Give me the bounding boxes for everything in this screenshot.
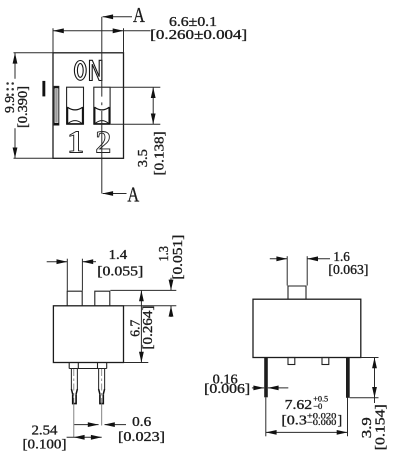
svg-text:[0.260±0.004]: [0.260±0.004]	[150, 27, 247, 42]
top view: left recess strip	[54, 86, 59, 125]
svg-text:1: 1	[67, 126, 84, 161]
side view: body outline	[253, 299, 361, 357]
dimension 3.5 right: extension lines	[111, 86, 161, 88]
dimension 6.7: dimension line	[140, 290, 142, 362]
section arrow top	[103, 16, 132, 18]
dimension 2.54: dimension line	[67, 436, 102, 438]
side view: middle bump 1	[288, 358, 295, 365]
side view: left leg	[264, 358, 268, 398]
top view: switch 2 slot	[94, 87, 110, 124]
side view: actuator tab	[288, 286, 306, 299]
svg-text:2.54: 2.54	[32, 422, 58, 437]
top view: ON legend	[74, 60, 102, 80]
svg-text:[0.063]: [0.063]	[328, 262, 368, 277]
dimension 1.4: extension lines	[66, 259, 68, 291]
section arrow bottom	[103, 193, 127, 195]
dimension 3.9: dimension line	[374, 358, 376, 404]
svg-text:[0.390]: [0.390]	[15, 86, 30, 128]
svg-text:0.6: 0.6	[132, 414, 151, 429]
svg-text:[0.051]: [0.051]	[170, 235, 185, 280]
dimension 1.6: arrows	[270, 258, 287, 260]
svg-text:A: A	[127, 183, 139, 206]
dimension 1.3: extension lines	[110, 289, 176, 291]
svg-text:−0.000: −0.000	[307, 417, 337, 427]
svg-text:[0.006]: [0.006]	[204, 381, 250, 396]
top view: switch 2 actuator	[94, 107, 110, 124]
front view: base block	[69, 363, 107, 369]
svg-text:2: 2	[95, 125, 111, 160]
top view: switch 1 slot	[67, 87, 84, 124]
dimension 7.62: dimension line	[266, 431, 348, 433]
svg-text:A: A	[133, 4, 145, 27]
front view: pin 2	[99, 369, 105, 390]
svg-text:[0.154]: [0.154]	[373, 404, 388, 450]
front view: pin 1 centerline	[73, 369, 75, 405]
svg-text:1.3: 1.3	[156, 246, 171, 262]
dimension 9.9 left: extension lines	[14, 52, 54, 54]
side view: right leg	[346, 358, 350, 398]
front view: pin 2 centerline	[101, 369, 103, 405]
svg-text:[0.264]: [0.264]	[140, 306, 155, 350]
front view: body outline	[53, 306, 123, 363]
top view: switch 1 actuator	[67, 107, 84, 124]
front view: actuator tab 2	[95, 291, 110, 306]
dimension 9.9 left: dimension line	[14, 53, 16, 79]
svg-text:[0.3: [0.3	[281, 412, 307, 427]
top view: switch body outline	[53, 53, 124, 159]
svg-text:[0.023]: [0.023]	[118, 429, 165, 444]
dimension 9.9 left: dots	[6, 82, 14, 96]
front view: pin 1	[71, 369, 77, 390]
side view: middle bump 2	[322, 358, 329, 365]
dimension 6.6 top: dimension line	[53, 30, 151, 32]
dimension 0.6: lines and arrows	[74, 424, 98, 426]
dimension 1.3: arrows	[170, 278, 172, 291]
dimension 6.6 top: extension lines	[52, 28, 54, 53]
dimension 3.5 right: dimension line	[152, 87, 154, 124]
dimension 3.9: extension lines	[361, 357, 379, 359]
svg-text:3.5: 3.5	[135, 149, 150, 167]
svg-text:]: ]	[338, 412, 342, 427]
svg-text:[0.100]: [0.100]	[23, 436, 67, 451]
section line A-A	[101, 17, 103, 194]
front view: actuator tab 1	[67, 291, 82, 306]
svg-text:[0.055]: [0.055]	[97, 263, 143, 278]
svg-text:1.4: 1.4	[109, 247, 128, 262]
dimension 1.6: extension lines	[286, 256, 288, 285]
top view: pin-1 index bar	[42, 81, 45, 97]
svg-text:[0.138]: [0.138]	[151, 131, 166, 175]
dimension 1.4: arrows and lines	[47, 261, 68, 263]
dimension 7.62: extension lines	[265, 397, 267, 436]
dimension 0.16: lines and arrows	[252, 387, 264, 389]
